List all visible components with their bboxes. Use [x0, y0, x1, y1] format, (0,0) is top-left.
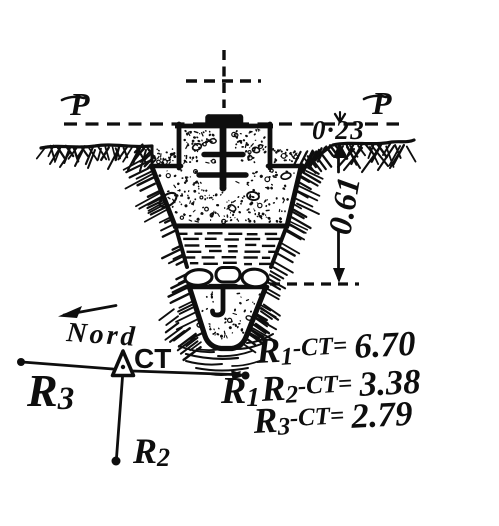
svg-text:CT: CT [134, 343, 171, 374]
svg-text:P: P [371, 85, 392, 121]
svg-text:Nord: Nord [65, 317, 139, 353]
svg-text:P: P [69, 86, 90, 122]
svg-text:0·23: 0·23 [312, 115, 365, 145]
